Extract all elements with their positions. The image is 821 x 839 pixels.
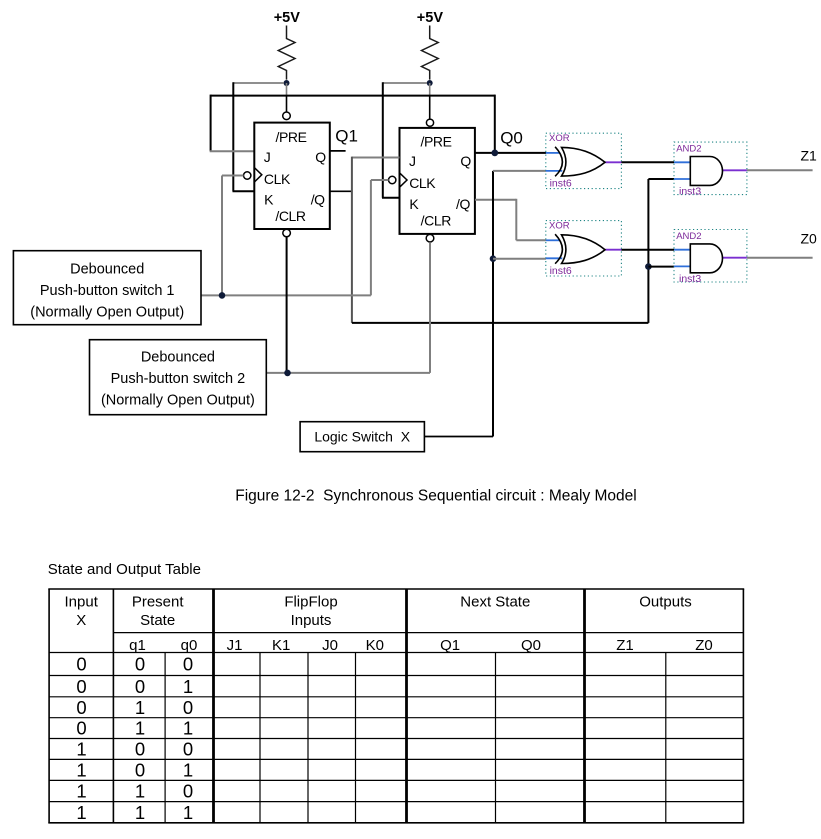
label Q0 — [500, 129, 523, 148]
node: junction dot AND column to lower AND input — [645, 263, 652, 270]
svg-text:inst6: inst6 — [550, 265, 572, 277]
wire: XOR1 output to AND1 input — [621, 161, 674, 163]
svg-text:K: K — [409, 196, 419, 212]
svg-text:Outputs: Outputs — [639, 594, 692, 611]
svg-text:Input: Input — [65, 593, 99, 610]
wire: /Q output stub of U1 — [330, 190, 352, 192]
svg-text:Inputs: Inputs — [291, 612, 332, 629]
svg-text:0: 0 — [76, 654, 86, 675]
svg-text:q1: q1 — [129, 637, 146, 654]
svg-text:/CLR: /CLR — [421, 213, 452, 229]
svg-text:AND2: AND2 — [676, 143, 701, 154]
svg-text:Present: Present — [132, 593, 185, 610]
wire: R1 junction left toward K of U1 — [233, 82, 284, 84]
XOR gate inst6 (lower) — [546, 221, 622, 277]
wire: X to XOR1 lower input — [493, 170, 546, 172]
svg-text:Next State: Next State — [460, 594, 530, 611]
svg-text:+5V: +5V — [274, 10, 301, 26]
wire: vertical down to K pin of U1 — [233, 82, 255, 191]
svg-text:1: 1 — [76, 739, 86, 760]
pin circle: /PRE bubble of U1 — [283, 112, 291, 120]
svg-text:Q0: Q0 — [500, 129, 523, 148]
svg-text:Q0: Q0 — [521, 637, 541, 654]
AND gate inst3 (upper) — [674, 142, 747, 197]
svg-text:J: J — [264, 149, 271, 165]
node: junction dot below R1 — [284, 80, 290, 86]
svg-text:1: 1 — [76, 802, 86, 823]
wire: J input of U1 — [210, 150, 255, 152]
wire: X to XOR2 lower input — [493, 258, 546, 260]
wire: Logic Switch X vertical — [492, 171, 494, 437]
svg-text:0: 0 — [183, 781, 193, 802]
svg-text:Debounced: Debounced — [70, 262, 144, 278]
table data rows — [76, 654, 193, 823]
node: Q0 junction dot — [491, 150, 498, 157]
svg-text:CLK: CLK — [409, 175, 436, 191]
wire: /Q1 vertical feed down — [351, 157, 353, 323]
power +5V label 1 — [274, 10, 301, 26]
svg-text:Q: Q — [315, 149, 326, 165]
JK flip-flop U1 — [254, 123, 329, 229]
pin circle: /CLR bubble of U2 — [426, 234, 434, 242]
svg-text:Z0: Z0 — [801, 231, 818, 247]
wire: R2 junction left toward K of U2 — [383, 82, 427, 84]
label Z0 — [801, 231, 818, 247]
wire: XOR2 output to AND2 input — [621, 249, 674, 251]
svg-text:1: 1 — [135, 781, 145, 802]
svg-text:Z1: Z1 — [616, 637, 634, 654]
pin circle: /CLR bubble of U1 — [283, 229, 291, 237]
svg-text:FlipFlop: FlipFlop — [284, 593, 337, 610]
wire: Z0 output line — [747, 257, 813, 259]
wire: push-button 2 to /CLR pins — [266, 242, 430, 373]
svg-text:State: State — [140, 612, 175, 629]
svg-text:/Q: /Q — [311, 192, 325, 208]
AND gate inst3 (lower) — [674, 230, 747, 285]
svg-text:0: 0 — [76, 676, 86, 697]
svg-text:1: 1 — [183, 676, 193, 697]
JK flip-flop U2 — [400, 128, 475, 234]
svg-text:XOR: XOR — [549, 133, 570, 144]
svg-text:inst6: inst6 — [550, 177, 572, 189]
table: State and Output Table grid — [48, 589, 744, 823]
svg-text:J: J — [409, 153, 416, 169]
svg-text:q0: q0 — [181, 637, 198, 654]
svg-text:1: 1 — [183, 802, 193, 823]
label: State and Output Table — [48, 561, 201, 578]
svg-text:1: 1 — [135, 697, 145, 718]
node: junction dot on push-button 2 wire — [284, 370, 291, 377]
caption: Figure 12-2 — [235, 488, 636, 505]
svg-text:/PRE: /PRE — [275, 129, 306, 145]
svg-text:1: 1 — [183, 718, 193, 739]
svg-text:X: X — [76, 612, 86, 629]
svg-text:Push-button switch 2: Push-button switch 2 — [111, 371, 246, 387]
svg-text:0: 0 — [76, 718, 86, 739]
svg-text:Q1: Q1 — [335, 127, 358, 146]
wire: AND column vertical — [648, 179, 674, 323]
svg-text:XOR: XOR — [549, 221, 570, 232]
XOR gate inst6 (upper) — [546, 133, 622, 189]
block: Debounced Push-button switch 1 — [13, 251, 201, 325]
label Z1 — [801, 148, 818, 164]
wire: Q0 output line to XOR1 — [475, 152, 546, 154]
svg-text:inst3: inst3 — [679, 273, 701, 285]
svg-text:Z0: Z0 — [695, 637, 713, 654]
node: junction dot X branch — [490, 255, 497, 262]
wire: rail from J of U1 to Q0 node — [211, 95, 495, 153]
svg-text:Q: Q — [460, 153, 471, 169]
svg-text:0: 0 — [135, 676, 145, 697]
svg-text:1: 1 — [183, 760, 193, 781]
svg-text:0: 0 — [76, 697, 86, 718]
svg-text:CLK: CLK — [264, 171, 291, 187]
svg-text:Z1: Z1 — [801, 148, 818, 164]
wire: R2 junction down to /PRE of U2 — [429, 83, 431, 119]
svg-text:(Normally Open Output): (Normally Open Output) — [30, 305, 184, 321]
svg-text:Debounced: Debounced — [141, 350, 215, 366]
svg-text:K0: K0 — [366, 637, 384, 654]
pin circle: /PRE bubble of U2 — [426, 119, 433, 126]
svg-text:+5V: +5V — [417, 10, 444, 26]
svg-text:0: 0 — [135, 739, 145, 760]
block: Logic Switch X — [300, 422, 424, 452]
svg-text:K1: K1 — [272, 637, 290, 654]
svg-text:Logic Switch X: Logic Switch X — [314, 429, 410, 445]
svg-text:AND2: AND2 — [676, 231, 701, 242]
pin circle: CLK bubble of U2 — [389, 176, 396, 183]
svg-text:1: 1 — [135, 802, 145, 823]
svg-text:Figure 12-2 Synchronous Seque: Figure 12-2 Synchronous Sequential circu… — [235, 488, 636, 505]
svg-text:inst3: inst3 — [679, 185, 701, 197]
wire: /Q1 to J of U2 — [352, 157, 400, 159]
svg-text:(Normally Open Output): (Normally Open Output) — [101, 393, 255, 409]
svg-text:J1: J1 — [227, 637, 243, 654]
svg-text:0: 0 — [135, 654, 145, 675]
svg-text:1: 1 — [76, 760, 86, 781]
wire: R1 junction down to /PRE of U1 — [286, 83, 288, 112]
wire: /Q1 horizontal run to AND column — [352, 322, 649, 324]
wire: Logic Switch X box to vertical — [424, 436, 493, 438]
table subheader row — [129, 637, 713, 654]
node: junction dot below R2 — [427, 80, 433, 86]
svg-text:0: 0 — [135, 760, 145, 781]
svg-text:K: K — [264, 192, 274, 208]
wire: vertical down to K pin of U2 — [382, 82, 400, 198]
resistor R2 — [422, 26, 439, 80]
svg-text:/Q: /Q — [456, 196, 470, 212]
svg-text:1: 1 — [76, 781, 86, 802]
resistor R1 — [278, 26, 295, 80]
svg-text:/PRE: /PRE — [420, 133, 451, 149]
block: Debounced Push-button switch 2 — [90, 340, 267, 415]
svg-text:Q1: Q1 — [440, 637, 460, 654]
wire: /Q0 to XOR2 input — [475, 199, 546, 241]
power +5V label 2 — [417, 10, 444, 26]
svg-text:/CLR: /CLR — [275, 208, 306, 224]
svg-text:0: 0 — [183, 739, 193, 760]
pin circle: CLK bubble of U1 — [244, 172, 251, 179]
svg-text:0: 0 — [183, 654, 193, 675]
svg-text:Push-button switch 1: Push-button switch 1 — [40, 283, 175, 299]
wire: /CLR of U1 down to push-button 2 wire — [286, 237, 288, 373]
table header text — [65, 593, 692, 629]
wire: Z1 output line — [747, 169, 813, 171]
svg-text:0: 0 — [183, 697, 193, 718]
node: junction dot on push-button 1 wire — [219, 292, 226, 299]
svg-text:J0: J0 — [322, 637, 338, 654]
wire: push-button 1 to clocks — [201, 176, 389, 296]
wire: branch to lower AND input — [648, 266, 674, 268]
label Q1 — [335, 127, 358, 146]
svg-text:1: 1 — [135, 718, 145, 739]
svg-text:State and Output Table: State and Output Table — [48, 561, 201, 578]
wire: Q output stub of U1 — [330, 150, 346, 152]
